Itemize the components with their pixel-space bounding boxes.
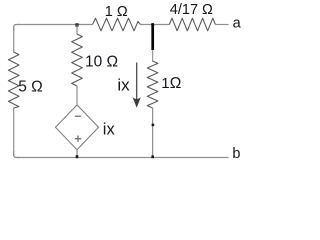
svg-text:4/17 Ω: 4/17 Ω <box>170 2 213 18</box>
resistor R 10ohm vertical <box>72 34 83 86</box>
resistor R 1ohm horizontal <box>93 18 141 31</box>
wire top segment left <box>17 24 93 26</box>
wire 1ohm vertical to bottom <box>152 108 154 158</box>
dependent source U1 diamond (ix controlled) <box>56 105 99 150</box>
svg-text:5 Ω: 5 Ω <box>18 79 43 96</box>
node junction dot bottom of source <box>76 155 79 158</box>
wire left vertical lower <box>13 108 15 156</box>
node junction dot top left branch <box>75 23 78 26</box>
svg-text:a: a <box>233 16 242 32</box>
svg-text:1 Ω: 1 Ω <box>105 4 128 20</box>
minus sign inside source <box>75 115 81 117</box>
svg-text:1: 1 <box>161 75 169 92</box>
svg-text:ix: ix <box>103 121 116 139</box>
wire top-left corner <box>14 25 20 32</box>
resistor R 4/17 ohm horizontal <box>169 18 215 31</box>
thick wire segment highlighted net <box>151 24 154 50</box>
wire 10ohm to source <box>76 86 78 106</box>
svg-text:10 Ω: 10 Ω <box>85 54 118 71</box>
wire bottom segment <box>17 157 229 159</box>
wire 10ohm branch top stub <box>76 25 78 35</box>
resistor R 1ohm vertical <box>147 61 158 108</box>
svg-text:ix: ix <box>117 76 130 95</box>
svg-text:b: b <box>232 146 240 162</box>
plus sign inside source <box>75 138 81 140</box>
wire left vertical upper <box>13 27 15 53</box>
current arrow ix line <box>136 63 138 102</box>
node dot mid wire <box>152 124 155 127</box>
current arrow ix head <box>133 97 141 108</box>
wire between 1ohm and junction <box>141 24 170 26</box>
wire stub below thick segment <box>152 50 154 62</box>
node junction dot bottom middle <box>151 155 154 158</box>
svg-text:Ω: Ω <box>170 75 182 92</box>
wire source to bottom <box>76 150 78 158</box>
resistor R 5ohm vertical <box>8 52 19 108</box>
node junction dot top middle <box>151 23 154 26</box>
wire bottom-left corner <box>14 151 20 158</box>
wire to terminal a <box>215 24 228 26</box>
